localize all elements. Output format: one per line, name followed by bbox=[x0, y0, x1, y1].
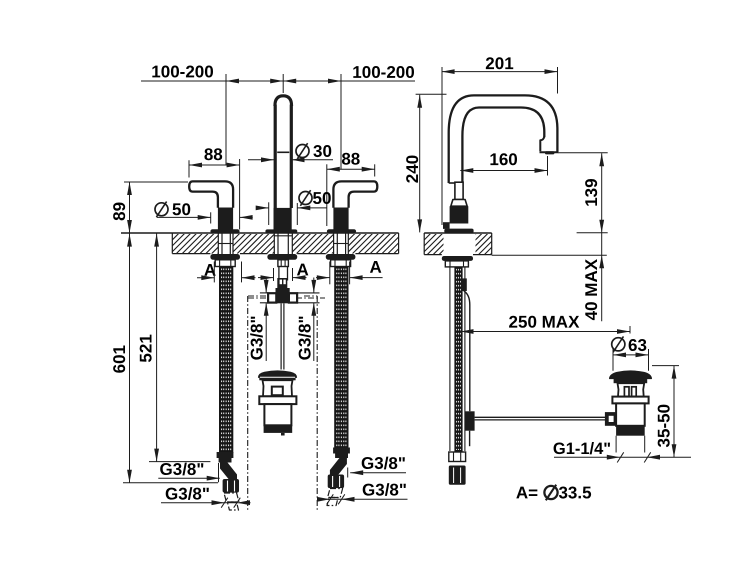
svg-text:601: 601 bbox=[110, 345, 129, 373]
svg-text:201: 201 bbox=[485, 54, 513, 73]
svg-text:521: 521 bbox=[137, 334, 156, 362]
svg-text:A: A bbox=[369, 258, 381, 277]
svg-text:50: 50 bbox=[313, 189, 332, 208]
svg-text:G3/8": G3/8" bbox=[165, 485, 210, 504]
svg-text:35-50: 35-50 bbox=[654, 404, 673, 447]
svg-text:88: 88 bbox=[204, 145, 223, 164]
svg-text:G3/8": G3/8" bbox=[361, 454, 406, 473]
svg-text:250 MAX: 250 MAX bbox=[509, 313, 581, 332]
svg-text:160: 160 bbox=[489, 150, 517, 169]
svg-text:139: 139 bbox=[582, 178, 601, 206]
svg-text:G3/8": G3/8" bbox=[362, 481, 407, 500]
svg-text:240: 240 bbox=[403, 155, 422, 183]
svg-text:63: 63 bbox=[628, 336, 647, 355]
svg-text:89: 89 bbox=[110, 202, 129, 221]
svg-text:100-200: 100-200 bbox=[352, 63, 414, 82]
svg-text:100-200: 100-200 bbox=[151, 62, 213, 81]
svg-text:G1-1/4": G1-1/4" bbox=[553, 440, 611, 458]
svg-text:G3/8": G3/8" bbox=[295, 315, 314, 360]
svg-text:A=: A= bbox=[516, 483, 538, 502]
svg-text:G3/8": G3/8" bbox=[160, 460, 205, 479]
svg-text:30: 30 bbox=[313, 142, 332, 161]
svg-text:G3/8": G3/8" bbox=[247, 315, 266, 360]
svg-text:40 MAX: 40 MAX bbox=[582, 258, 601, 320]
svg-text:50: 50 bbox=[172, 200, 191, 219]
svg-text:88: 88 bbox=[341, 150, 360, 169]
svg-text:33.5: 33.5 bbox=[558, 483, 591, 502]
